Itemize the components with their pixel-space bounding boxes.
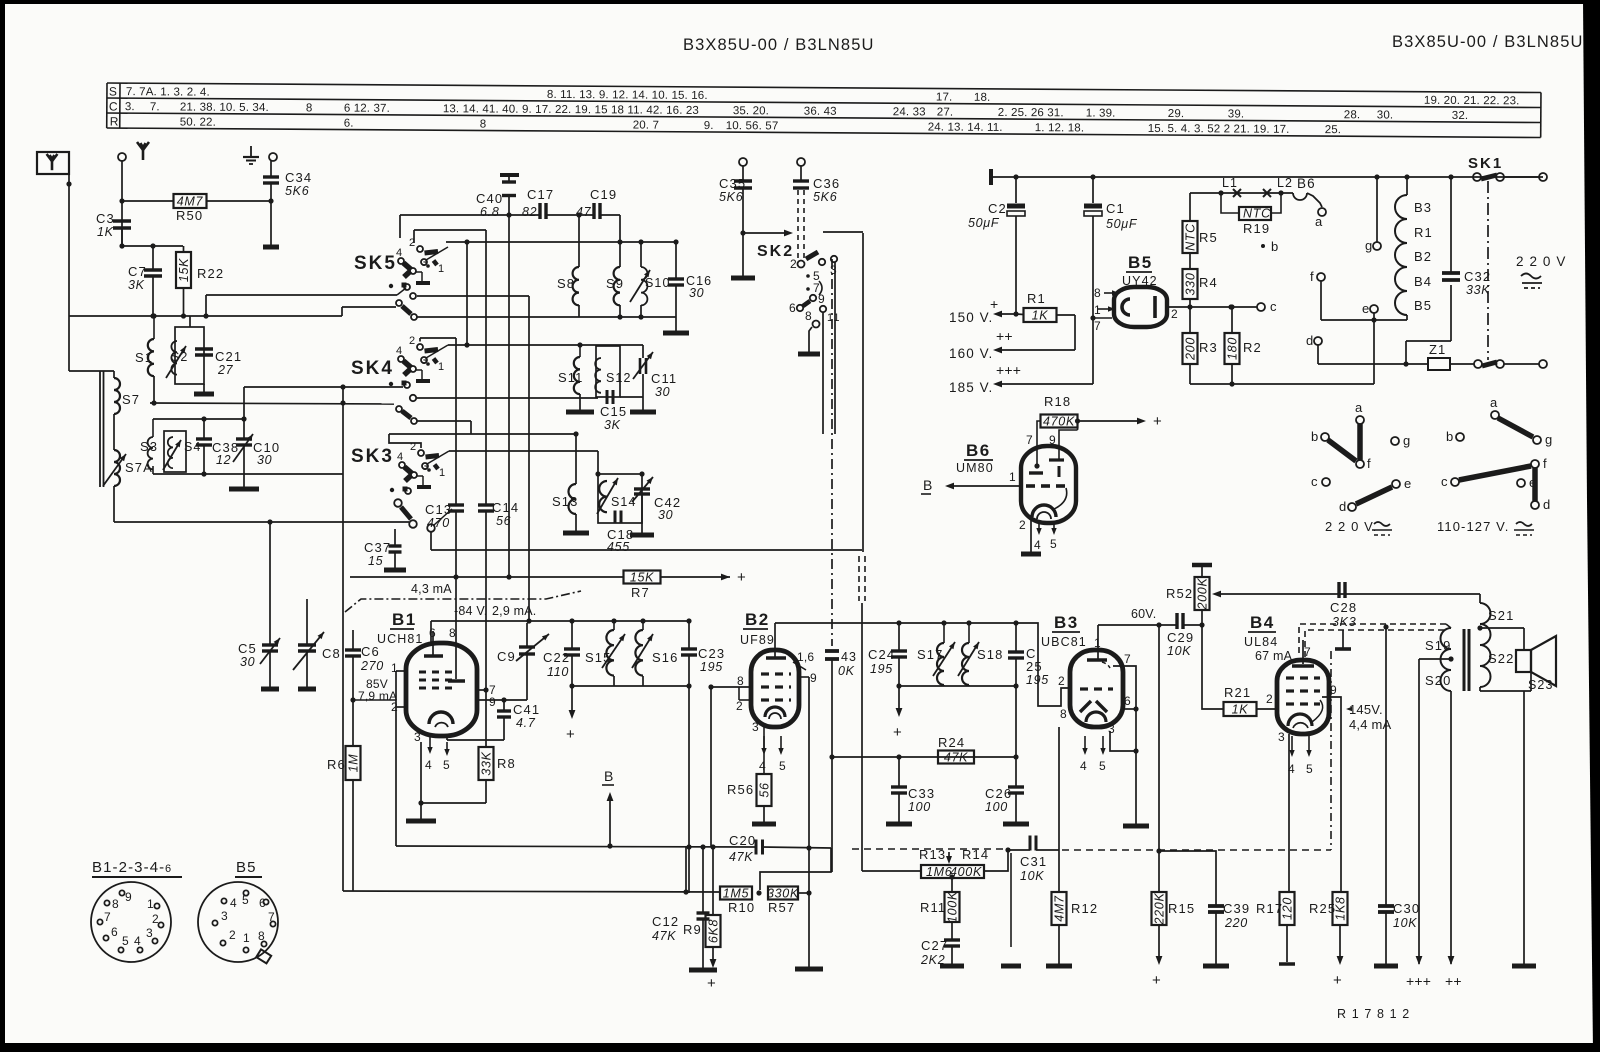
svg-text:4: 4 [230, 896, 238, 910]
svg-text:21. 38. 10. 5. 34.: 21. 38. 10. 5. 34. [180, 101, 269, 114]
svg-text:C33: C33 [908, 786, 935, 801]
svg-text:56: 56 [758, 782, 772, 797]
svg-text:b: b [1311, 429, 1319, 444]
svg-text:B3X85U-00 / B3LN85U: B3X85U-00 / B3LN85U [683, 36, 875, 54]
svg-text:C40: C40 [476, 191, 503, 206]
svg-text:R57: R57 [768, 900, 795, 915]
svg-text:R5: R5 [1199, 230, 1218, 245]
svg-text:UL84: UL84 [1244, 635, 1278, 649]
svg-text:4,4 mA: 4,4 mA [1349, 717, 1392, 732]
svg-text:20. 7: 20. 7 [633, 119, 659, 131]
svg-text:5: 5 [1306, 762, 1314, 776]
svg-text:10. 56. 57: 10. 56. 57 [726, 120, 779, 132]
svg-text:15: 15 [368, 554, 383, 568]
svg-text:C: C [109, 100, 119, 114]
svg-text:6K8: 6K8 [707, 919, 721, 943]
svg-text:2: 2 [736, 699, 744, 713]
svg-text:B2: B2 [1414, 249, 1432, 264]
svg-text:S17: S17 [917, 647, 943, 662]
svg-text:C8: C8 [322, 646, 341, 661]
svg-text:R1: R1 [1027, 291, 1046, 306]
svg-text:29.: 29. [1168, 108, 1185, 120]
svg-text:10K: 10K [1167, 644, 1191, 658]
svg-text:2: 2 [1019, 518, 1027, 532]
svg-text:6: 6 [1124, 694, 1132, 708]
svg-text:C22: C22 [543, 650, 570, 665]
svg-text:C26: C26 [985, 786, 1012, 801]
svg-text:7: 7 [104, 910, 112, 924]
svg-text:B1-2-3-4-: B1-2-3-4- [92, 859, 165, 876]
svg-text:d: d [1543, 497, 1551, 512]
svg-text:9.: 9. [704, 120, 714, 132]
svg-text:c: c [1270, 299, 1278, 314]
svg-text:3K: 3K [604, 418, 621, 432]
svg-text:8: 8 [480, 118, 487, 130]
svg-text:c: c [1441, 474, 1449, 489]
svg-text:4,3 mA: 4,3 mA [411, 582, 452, 596]
svg-text:8: 8 [737, 674, 745, 688]
svg-text:25: 25 [1026, 659, 1043, 674]
svg-text:SK4: SK4 [351, 358, 394, 379]
svg-text:C21: C21 [215, 349, 242, 364]
svg-text:30: 30 [689, 286, 704, 300]
svg-text:R11: R11 [920, 900, 946, 915]
svg-text:160 V.: 160 V. [949, 346, 993, 361]
svg-text:UCH81: UCH81 [377, 632, 424, 646]
svg-text:3: 3 [752, 720, 760, 734]
svg-text:8: 8 [1060, 707, 1068, 721]
svg-text:47K: 47K [729, 850, 753, 864]
svg-text:56: 56 [496, 514, 511, 528]
svg-text:120: 120 [1281, 897, 1295, 920]
svg-text:S9: S9 [606, 276, 624, 291]
svg-text:S10: S10 [645, 276, 671, 290]
svg-text:100: 100 [908, 800, 931, 814]
svg-text:S21: S21 [1488, 608, 1514, 623]
svg-text:220K: 220K [1153, 893, 1167, 926]
svg-text:1: 1 [438, 361, 445, 373]
svg-text:3.: 3. [125, 101, 135, 113]
svg-text:2: 2 [409, 335, 416, 347]
svg-text:B: B [604, 768, 614, 784]
svg-text:UM80: UM80 [956, 461, 994, 475]
svg-text:1M: 1M [347, 754, 361, 773]
svg-text:1K: 1K [1232, 703, 1249, 717]
svg-text:C35: C35 [719, 176, 746, 191]
svg-text:R19: R19 [1243, 221, 1270, 236]
svg-text:35. 20.: 35. 20. [733, 105, 769, 117]
svg-text:3K3: 3K3 [1332, 615, 1356, 629]
svg-text:19. 20. 21. 22. 23.: 19. 20. 21. 22. 23. [1424, 95, 1520, 108]
svg-text:C1: C1 [1106, 201, 1125, 216]
svg-text:15K: 15K [630, 571, 654, 585]
svg-text:50. 22.: 50. 22. [180, 116, 216, 128]
svg-text:1: 1 [1009, 470, 1017, 484]
svg-text:a: a [1490, 395, 1498, 410]
svg-text:7.: 7. [150, 101, 160, 113]
svg-text:1: 1 [391, 661, 399, 675]
svg-text:B6: B6 [1297, 176, 1316, 191]
svg-text:12: 12 [216, 453, 231, 467]
svg-text:-84 V.: -84 V. [454, 604, 487, 618]
svg-text:UBC81: UBC81 [1041, 635, 1087, 649]
svg-text:b: b [1271, 239, 1279, 254]
svg-text:47K: 47K [944, 751, 968, 765]
svg-text:C20: C20 [729, 833, 756, 848]
svg-text:8: 8 [449, 626, 457, 640]
svg-text:5: 5 [1099, 759, 1107, 773]
svg-text:30: 30 [658, 508, 673, 522]
svg-text:C24: C24 [868, 647, 895, 662]
svg-text:R18: R18 [1044, 394, 1071, 409]
svg-text:145V.: 145V. [1349, 702, 1383, 717]
svg-text:150 V.: 150 V. [949, 310, 993, 325]
svg-text:50μF: 50μF [968, 216, 1000, 230]
svg-text:C7: C7 [128, 264, 147, 279]
svg-text:10K: 10K [1020, 869, 1044, 883]
svg-text:1: 1 [147, 897, 155, 911]
svg-text:10K: 10K [1393, 916, 1417, 930]
svg-text:5K6: 5K6 [719, 190, 743, 204]
svg-text:4: 4 [397, 451, 404, 463]
svg-text:220: 220 [1224, 916, 1248, 930]
svg-text:e: e [1404, 476, 1412, 491]
svg-text:100: 100 [985, 800, 1008, 814]
svg-text:1K8: 1K8 [1334, 896, 1348, 920]
svg-text:24. 33: 24. 33 [893, 106, 926, 118]
svg-text:R8: R8 [497, 756, 516, 771]
svg-text:100K: 100K [946, 891, 960, 923]
svg-text:5: 5 [122, 934, 130, 948]
svg-text:17.: 17. [936, 91, 953, 103]
svg-text:1: 1 [1094, 636, 1102, 650]
svg-text:SK1: SK1 [1468, 155, 1503, 172]
svg-text:60V.: 60V. [1131, 607, 1156, 621]
svg-text:6: 6 [789, 301, 797, 315]
svg-text:8: 8 [1094, 286, 1102, 300]
svg-text:5K6: 5K6 [285, 184, 309, 198]
svg-text:5: 5 [443, 758, 451, 772]
svg-text:32.: 32. [1452, 110, 1469, 122]
svg-text:S23: S23 [1528, 678, 1554, 692]
svg-text:C29: C29 [1167, 630, 1194, 645]
svg-text:a: a [1355, 400, 1363, 415]
svg-text:4M7: 4M7 [177, 195, 204, 209]
svg-text:R3: R3 [1199, 340, 1218, 355]
svg-text:+: + [707, 975, 717, 992]
svg-text:C13: C13 [425, 502, 452, 517]
svg-text:NTC: NTC [1184, 223, 1198, 251]
svg-text:C34: C34 [285, 170, 312, 185]
svg-text:3: 3 [414, 730, 422, 744]
svg-text:R24: R24 [938, 735, 965, 750]
svg-text:2: 2 [409, 237, 416, 249]
svg-text:4: 4 [1034, 538, 1042, 552]
svg-text:R12: R12 [1071, 901, 1098, 916]
svg-text:1M5: 1M5 [723, 887, 749, 901]
svg-text:110: 110 [547, 665, 569, 679]
svg-text:Z1: Z1 [1429, 342, 1446, 357]
svg-text:C9: C9 [497, 649, 516, 664]
svg-text:C17: C17 [527, 187, 554, 202]
svg-text:C27: C27 [921, 938, 948, 953]
svg-text:195: 195 [870, 662, 893, 676]
svg-text:SK3: SK3 [351, 446, 394, 467]
svg-text:2 2 0 V: 2 2 0 V [1516, 254, 1566, 269]
svg-text:+: + [566, 726, 576, 743]
svg-text:f: f [1543, 456, 1548, 471]
svg-text:B5: B5 [1414, 298, 1432, 313]
svg-text:++: ++ [1445, 973, 1462, 989]
svg-text:27.: 27. [937, 107, 954, 119]
svg-text:g: g [1365, 238, 1373, 253]
svg-text:g: g [1545, 432, 1553, 447]
svg-text:C2: C2 [988, 201, 1007, 216]
svg-text:b: b [1446, 429, 1454, 444]
svg-text:18.: 18. [974, 92, 991, 104]
svg-text:455: 455 [607, 540, 630, 554]
svg-text:S15: S15 [585, 650, 611, 665]
svg-text:2: 2 [1171, 307, 1179, 321]
svg-text:185 V.: 185 V. [949, 380, 993, 395]
svg-text:33K: 33K [480, 751, 494, 775]
svg-text:S13: S13 [552, 494, 578, 509]
svg-text:SK5: SK5 [354, 253, 397, 274]
svg-text:g: g [1403, 433, 1411, 448]
svg-text:B4: B4 [1414, 274, 1432, 289]
svg-text:39.: 39. [1228, 108, 1245, 120]
svg-text:R50: R50 [176, 208, 203, 223]
svg-text:2: 2 [1266, 692, 1274, 706]
svg-text:R56: R56 [727, 782, 754, 797]
svg-text:S3: S3 [140, 439, 158, 454]
svg-text:c: c [1311, 474, 1319, 489]
svg-text:S2: S2 [171, 350, 189, 364]
svg-text:e: e [1362, 301, 1370, 316]
svg-text:+: + [893, 724, 903, 741]
svg-text:R15: R15 [1168, 901, 1195, 916]
svg-text:195: 195 [700, 660, 723, 674]
svg-text:C37: C37 [364, 540, 391, 555]
svg-text:S1: S1 [135, 350, 153, 365]
svg-text:f: f [1310, 269, 1315, 284]
svg-text:2,9 mA.: 2,9 mA. [492, 604, 536, 618]
svg-text:4: 4 [1288, 762, 1296, 776]
svg-text:R7: R7 [631, 585, 650, 600]
svg-text:+++: +++ [996, 362, 1021, 378]
svg-text:270: 270 [360, 659, 384, 673]
svg-text:R1: R1 [1414, 225, 1433, 240]
svg-text:1K: 1K [1032, 309, 1049, 323]
svg-text:24. 13. 14. 11.: 24. 13. 14. 11. [928, 121, 1003, 133]
svg-text:2 2 0 V.: 2 2 0 V. [1325, 519, 1377, 534]
svg-text:4: 4 [134, 934, 142, 948]
svg-text:7: 7 [1026, 433, 1034, 447]
svg-text:3: 3 [146, 926, 154, 940]
svg-text:B1: B1 [392, 610, 417, 629]
svg-text:7: 7 [1094, 319, 1102, 333]
svg-text:C11: C11 [651, 371, 677, 386]
svg-text:R4: R4 [1199, 275, 1218, 290]
svg-text:1. 39.: 1. 39. [1086, 107, 1116, 119]
svg-text:f: f [1367, 456, 1372, 471]
svg-text:3: 3 [1278, 730, 1286, 744]
svg-text:33K: 33K [1466, 283, 1490, 297]
svg-text:4: 4 [396, 247, 403, 259]
svg-text:C5: C5 [238, 641, 257, 656]
svg-text:67 mA: 67 mA [1255, 649, 1293, 663]
svg-text:UF89: UF89 [740, 633, 775, 647]
svg-text:15K: 15K [177, 258, 191, 282]
svg-text:B5: B5 [1128, 253, 1153, 272]
svg-text:C36: C36 [813, 176, 840, 191]
svg-text:1,6: 1,6 [797, 650, 814, 664]
svg-text:9: 9 [125, 890, 133, 904]
svg-text:R52: R52 [1166, 586, 1193, 601]
svg-text:1: 1 [438, 263, 445, 275]
svg-text:8: 8 [112, 897, 120, 911]
svg-text:C15: C15 [600, 404, 627, 419]
svg-text:C28: C28 [1330, 600, 1357, 615]
svg-text:B3: B3 [1414, 200, 1432, 215]
svg-text:0K: 0K [838, 664, 855, 678]
svg-text:C19: C19 [590, 187, 617, 202]
svg-text:2. 25. 26 31.: 2. 25. 26 31. [998, 107, 1064, 119]
svg-text:SK2: SK2 [757, 243, 794, 260]
svg-text:B5: B5 [236, 859, 257, 876]
svg-text:S22: S22 [1488, 651, 1514, 666]
svg-text:S11: S11 [558, 370, 583, 385]
svg-text:6: 6 [111, 925, 119, 939]
svg-text:30: 30 [240, 655, 255, 669]
svg-text:4: 4 [396, 345, 403, 357]
svg-text:S: S [109, 85, 118, 99]
svg-text:8. 11. 13. 9. 12. 14. 10. 15.: 8. 11. 13. 9. 12. 14. 10. 15. 16. [547, 89, 708, 102]
svg-text:30: 30 [257, 453, 272, 467]
svg-text:36. 43: 36. 43 [804, 106, 837, 118]
svg-text:9: 9 [810, 671, 818, 685]
svg-text:S12: S12 [606, 371, 632, 385]
svg-text:C31: C31 [1020, 854, 1047, 869]
svg-text:R 1 7 8 1 2: R 1 7 8 1 2 [1337, 1007, 1410, 1021]
svg-text:7: 7 [1124, 652, 1132, 666]
svg-text:200K: 200K [1196, 578, 1210, 611]
svg-text:30: 30 [655, 385, 670, 399]
svg-text:330K: 330K [767, 887, 799, 901]
svg-text:C14: C14 [492, 500, 519, 515]
svg-text:C39: C39 [1223, 901, 1250, 916]
svg-text:S18: S18 [977, 647, 1003, 662]
svg-text:13. 14. 41. 40. 9. 17. 2: 13. 14. 41. 40. 9. 17. 22. 19. 15 18 11.… [443, 103, 699, 117]
svg-text:25.: 25. [1325, 124, 1342, 136]
svg-text:27: 27 [217, 363, 234, 377]
svg-text:8: 8 [805, 309, 813, 323]
svg-text:4.7: 4.7 [516, 716, 536, 730]
svg-text:7. 7A. 1. 3. 2. 4.: 7. 7A. 1. 3. 2. 4. [126, 86, 210, 99]
svg-text:+: + [1153, 413, 1163, 430]
svg-text:1M6: 1M6 [926, 865, 952, 879]
svg-text:R22: R22 [197, 266, 224, 281]
svg-text:470: 470 [427, 516, 450, 530]
svg-text:d: d [1339, 499, 1347, 514]
svg-text:C41: C41 [513, 702, 540, 717]
svg-text:6.8: 6.8 [480, 205, 499, 219]
svg-text:43: 43 [841, 650, 857, 664]
svg-text:C32: C32 [1464, 269, 1491, 284]
svg-text:+: + [1152, 972, 1162, 989]
svg-text:47K: 47K [652, 929, 676, 943]
svg-text:B: B [923, 477, 933, 493]
svg-text:9: 9 [818, 292, 826, 306]
svg-text:9: 9 [489, 695, 497, 709]
svg-text:3K: 3K [128, 278, 145, 292]
svg-text:28.: 28. [1344, 109, 1361, 121]
svg-text:1K: 1K [97, 225, 114, 239]
svg-text:8: 8 [306, 102, 313, 114]
svg-text:R2: R2 [1243, 340, 1262, 355]
svg-text:++: ++ [996, 328, 1013, 344]
svg-text:S7: S7 [122, 392, 140, 407]
svg-text:30.: 30. [1377, 109, 1394, 121]
svg-text:d: d [1306, 333, 1314, 348]
svg-text:110-127 V.: 110-127 V. [1437, 519, 1509, 534]
svg-text:+: + [737, 569, 747, 586]
svg-text:4: 4 [425, 758, 433, 772]
svg-text:S4: S4 [184, 440, 202, 454]
svg-text:S20: S20 [1425, 673, 1451, 688]
svg-text:400K: 400K [950, 865, 982, 879]
svg-text:L1: L1 [1222, 176, 1238, 190]
svg-text:4: 4 [759, 759, 767, 773]
svg-text:C6: C6 [361, 644, 380, 659]
svg-text:200: 200 [1184, 337, 1198, 361]
svg-text:6.: 6. [344, 118, 354, 130]
svg-text:15. 5. 4. 3. 52 2 21. 19. 1: 15. 5. 4. 3. 52 2 21. 19. 17. [1148, 123, 1290, 136]
svg-text:11: 11 [827, 312, 841, 324]
svg-text:5: 5 [779, 759, 787, 773]
svg-text:2K2: 2K2 [920, 953, 945, 967]
svg-text:C3: C3 [96, 211, 115, 226]
svg-text:B2: B2 [745, 610, 770, 629]
svg-text:4M7: 4M7 [1053, 895, 1067, 922]
svg-text:R21: R21 [1224, 685, 1251, 700]
svg-text:5K6: 5K6 [813, 190, 837, 204]
svg-text:C23: C23 [698, 646, 725, 661]
svg-text:+++: +++ [1406, 973, 1431, 989]
svg-text:S8: S8 [557, 276, 575, 291]
svg-text:6 12. 37.: 6 12. 37. [344, 103, 390, 115]
svg-text:S19: S19 [1425, 638, 1451, 653]
svg-text:1: 1 [439, 467, 446, 479]
svg-text:NTC: NTC [1243, 207, 1271, 221]
svg-text:180: 180 [1226, 337, 1240, 360]
svg-text:R10: R10 [728, 900, 755, 915]
svg-text:L2: L2 [1277, 176, 1293, 190]
svg-text:a: a [1315, 214, 1323, 229]
svg-text:+: + [1333, 972, 1343, 989]
svg-text:50μF: 50μF [1106, 217, 1138, 231]
svg-text:B4: B4 [1250, 613, 1275, 632]
svg-text:2: 2 [229, 928, 237, 942]
svg-text:B6: B6 [966, 441, 991, 460]
svg-text:R: R [110, 115, 120, 129]
svg-text:S16: S16 [652, 650, 678, 665]
svg-text:5: 5 [1050, 537, 1058, 551]
svg-text:1: 1 [1094, 303, 1102, 317]
svg-text:7,9 mA: 7,9 mA [358, 689, 397, 703]
svg-text:B3X85U-00 / B3LN85U: B3X85U-00 / B3LN85U [1392, 33, 1584, 51]
svg-text:4: 4 [1080, 759, 1088, 773]
